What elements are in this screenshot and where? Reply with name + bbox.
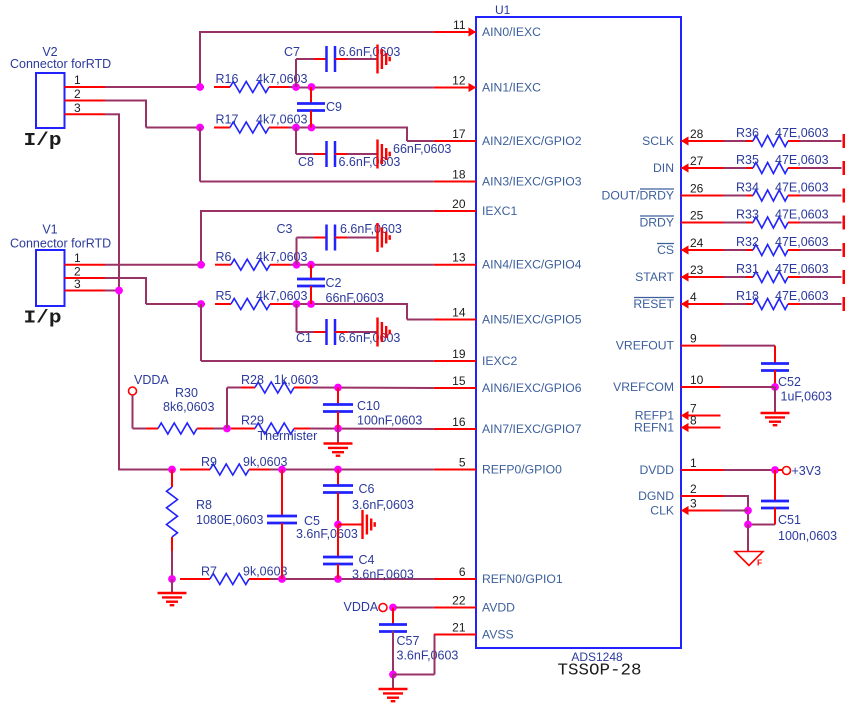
capacitor C10 xyxy=(323,403,353,406)
svg-text:R33: R33 xyxy=(736,208,759,222)
svg-text:C6: C6 xyxy=(359,482,375,496)
svg-text:R8: R8 xyxy=(196,498,212,512)
svg-text:22: 22 xyxy=(452,594,466,608)
ground C7 (rotated) xyxy=(376,45,378,74)
svg-text:R30: R30 xyxy=(175,386,198,400)
svg-text:3.6nF,0603: 3.6nF,0603 xyxy=(352,498,414,512)
ground C6 (rotated) xyxy=(361,510,363,539)
ground under C52 xyxy=(761,412,790,414)
C6 lead to ground xyxy=(338,524,362,526)
off-page terminal R33 xyxy=(843,216,845,230)
junction C5 bottom xyxy=(278,575,286,583)
resistor R17 xyxy=(214,127,230,129)
wire to power ground xyxy=(747,525,749,552)
junction C8 tap xyxy=(292,124,300,132)
wire R6 to AIN4 xyxy=(290,264,434,266)
svg-text:13: 13 xyxy=(452,251,466,265)
junction CLK xyxy=(744,507,752,515)
junction C5 top xyxy=(278,466,286,474)
svg-text:3: 3 xyxy=(690,497,697,511)
svg-text:REFP0/GPIO0: REFP0/GPIO0 xyxy=(482,463,562,477)
svg-text:AVDD: AVDD xyxy=(482,601,515,615)
wire R33 row xyxy=(724,222,747,224)
wire V2 pin2 jog xyxy=(105,100,147,102)
svg-text:18: 18 xyxy=(452,168,466,182)
junction C10 top xyxy=(334,384,342,392)
wire R28 to AIN6 xyxy=(310,387,434,390)
svg-text:3.6nF,0603: 3.6nF,0603 xyxy=(296,527,358,541)
junction C2 bottom tap xyxy=(307,300,315,308)
junction C52 / VREFCOM xyxy=(771,383,779,391)
wire DVDD to node xyxy=(724,469,776,471)
wire R34 to edge xyxy=(800,195,842,197)
svg-text:47E,0603: 47E,0603 xyxy=(775,289,829,303)
pin 18 AIN3/IEXC/GPIO3 xyxy=(434,181,476,183)
junction C9 top tap xyxy=(308,83,316,91)
svg-text:START: START xyxy=(635,270,674,284)
svg-text:6.6nF,0603: 6.6nF,0603 xyxy=(339,45,401,59)
svg-text:66nF,0603: 66nF,0603 xyxy=(393,142,451,156)
pin 2 DGND xyxy=(681,495,724,497)
V1 pin 1 xyxy=(65,264,106,266)
svg-text:6.6nF,0603: 6.6nF,0603 xyxy=(339,155,401,169)
ground under C57 xyxy=(379,688,408,690)
svg-text:1: 1 xyxy=(74,73,81,87)
capacitor C1 leads xyxy=(296,304,298,332)
svg-text:R16: R16 xyxy=(216,72,239,86)
svg-text:C4: C4 xyxy=(359,553,375,567)
svg-text:SCLK: SCLK xyxy=(642,134,674,148)
svg-text:6.6nF,0603: 6.6nF,0603 xyxy=(339,331,401,345)
pin 9 VREFOUT xyxy=(681,345,721,347)
wire R32 to edge xyxy=(800,249,842,251)
svg-text:15: 15 xyxy=(452,374,466,388)
capacitor C57 leads xyxy=(392,608,394,626)
capacitor C8 xyxy=(325,141,328,167)
junction C7 tap xyxy=(292,83,300,91)
wire R29 to AIN7 xyxy=(310,428,434,431)
svg-text:6.6nF,0603: 6.6nF,0603 xyxy=(340,222,402,236)
svg-text:DVDD: DVDD xyxy=(639,463,674,477)
wire IEXC1 row xyxy=(201,210,434,212)
capacitor C10 leads xyxy=(337,388,339,406)
pin 8 REFN1 xyxy=(681,427,721,429)
svg-text:AIN0/IEXC: AIN0/IEXC xyxy=(482,25,541,39)
svg-text:3.6nF,0603: 3.6nF,0603 xyxy=(352,568,414,582)
wire DGND jog down xyxy=(724,495,749,497)
pin 27 DIN xyxy=(681,167,724,169)
pin 20 IEXC1 xyxy=(434,210,476,212)
svg-text:R9: R9 xyxy=(201,455,217,469)
svg-text:R18: R18 xyxy=(736,289,759,303)
svg-text:2: 2 xyxy=(690,482,697,496)
ground C3 (rotated) xyxy=(376,223,378,252)
svg-text:5: 5 xyxy=(459,456,466,470)
svg-text:AIN1/IEXC: AIN1/IEXC xyxy=(482,81,541,95)
off-page terminal R36 xyxy=(843,134,845,148)
svg-text:9: 9 xyxy=(690,332,697,346)
resistor R34 xyxy=(746,195,753,197)
svg-text:1uF,0603: 1uF,0603 xyxy=(781,390,832,404)
V2 pin 1 xyxy=(65,86,106,88)
svg-text:I/p: I/p xyxy=(24,130,62,151)
resistor R31 xyxy=(746,276,753,278)
svg-text:1: 1 xyxy=(690,456,697,470)
svg-text:VDDA: VDDA xyxy=(344,600,379,614)
svg-text:1: 1 xyxy=(74,251,81,265)
pin 1 DVDD xyxy=(681,469,724,471)
capacitor C8 leads xyxy=(295,128,297,155)
pin 28 SCLK xyxy=(681,140,724,142)
svg-text:AIN7/IEXC/GPIO7: AIN7/IEXC/GPIO7 xyxy=(482,422,582,436)
wire R31 row xyxy=(724,276,747,278)
junction C2 top tap xyxy=(307,261,315,269)
svg-text:I/p: I/p xyxy=(24,308,62,329)
pin 19 IEXC2 xyxy=(434,360,476,362)
pin 11 AIN0/IEXC xyxy=(434,31,476,33)
svg-text:REFN0/GPIO1: REFN0/GPIO1 xyxy=(482,572,563,586)
wire AIN0 top rail xyxy=(200,31,434,33)
connector V1 xyxy=(36,250,65,306)
svg-text:C9: C9 xyxy=(326,100,342,114)
junction C3 tap xyxy=(293,261,301,269)
wire to ground under C10 xyxy=(337,429,339,444)
capacitor C9 xyxy=(297,102,325,105)
svg-text:2: 2 xyxy=(74,87,81,101)
pin 17 AIN2/IEXC/GPIO2 xyxy=(434,140,476,142)
svg-text:AIN6/IEXC/GPIO6: AIN6/IEXC/GPIO6 xyxy=(482,381,582,395)
svg-text:100n,0603: 100n,0603 xyxy=(778,529,837,543)
junction C4 bottom xyxy=(334,575,342,583)
svg-text:1k,0603: 1k,0603 xyxy=(274,373,319,387)
capacitor C5 xyxy=(267,515,297,518)
svg-text:6: 6 xyxy=(459,565,466,579)
wire R35 row xyxy=(724,167,747,169)
svg-text:47E,0603: 47E,0603 xyxy=(775,208,829,222)
resistor R18 xyxy=(746,303,753,305)
svg-text:25: 25 xyxy=(690,209,704,223)
svg-text:28: 28 xyxy=(690,127,704,141)
svg-text:3: 3 xyxy=(74,101,81,115)
svg-text:17: 17 xyxy=(452,127,466,141)
wire left vertical bus xyxy=(118,114,120,470)
capacitor C6 leads xyxy=(337,470,339,487)
junction C57 bottom xyxy=(389,671,397,679)
svg-text:C2: C2 xyxy=(326,276,342,290)
junction VDDA / AVDD xyxy=(389,604,397,612)
junction R17 left xyxy=(196,124,204,132)
wire V2 pin3 to left bus xyxy=(105,113,120,115)
wire R7 to REFN0 xyxy=(270,578,434,580)
wire R31 to edge xyxy=(800,276,842,278)
junction R6 left xyxy=(197,261,205,269)
junction C1 tap xyxy=(293,300,301,308)
C8 lead to ground xyxy=(335,153,347,155)
power +3V3 xyxy=(778,469,782,471)
wire R32 row xyxy=(724,249,747,251)
svg-text:REFN1: REFN1 xyxy=(634,421,674,435)
svg-text:C1: C1 xyxy=(296,331,312,345)
pin 13 AIN4/IEXC/GPIO4 xyxy=(434,264,476,266)
svg-text:47E,0603: 47E,0603 xyxy=(775,262,829,276)
pin 7 REFP1 xyxy=(681,415,721,417)
wire V1 pin2 jog xyxy=(105,277,147,279)
capacitor C6 xyxy=(323,484,353,487)
svg-text:DGND: DGND xyxy=(638,489,674,503)
svg-text:R5: R5 xyxy=(216,289,232,303)
resistor R5 xyxy=(215,303,231,305)
pin 22 AVDD xyxy=(434,607,476,609)
resistor R28 xyxy=(241,387,255,389)
junction C9 bottom tap xyxy=(308,124,316,132)
svg-text:12: 12 xyxy=(452,74,466,88)
wire AIN3 row xyxy=(199,128,201,182)
C1 lead to ground xyxy=(335,331,347,333)
svg-text:4k7,0603: 4k7,0603 xyxy=(256,250,307,264)
V2 pin 3 xyxy=(65,113,106,115)
svg-text:IEXC2: IEXC2 xyxy=(482,354,517,368)
svg-text:R28: R28 xyxy=(241,373,264,387)
wire R16 to AIN1 xyxy=(289,86,296,88)
capacitor C3 leads xyxy=(296,238,298,265)
connector V2 xyxy=(36,73,65,128)
svg-text:8: 8 xyxy=(690,414,697,428)
svg-text:C7: C7 xyxy=(284,45,300,59)
wire C57 to AVSS xyxy=(393,674,435,676)
svg-text:AVSS: AVSS xyxy=(482,628,514,642)
svg-text:3.6nF,0603: 3.6nF,0603 xyxy=(397,649,459,663)
V2 pin 2 xyxy=(65,100,106,102)
svg-text:4: 4 xyxy=(690,290,697,304)
svg-text:1080E,0603: 1080E,0603 xyxy=(196,513,263,527)
junction C10 bottom / ground xyxy=(334,425,342,433)
junction R30/R28/R29 xyxy=(223,425,231,433)
svg-text:VREFCOM: VREFCOM xyxy=(613,380,674,394)
svg-text:AIN4/IEXC/GPIO4: AIN4/IEXC/GPIO4 xyxy=(482,258,582,272)
svg-text:C51: C51 xyxy=(778,513,801,527)
junction R8 bottom / ground xyxy=(168,575,176,583)
wire VREFCOM to node xyxy=(721,386,776,388)
ground C1 (rotated) xyxy=(376,318,378,347)
wire node up to R28 xyxy=(226,388,228,429)
svg-text:47E,0603: 47E,0603 xyxy=(775,235,829,249)
svg-text:27: 27 xyxy=(690,154,704,168)
ground under C10 xyxy=(324,442,353,444)
svg-text:CLK: CLK xyxy=(650,504,674,518)
svg-text:CS: CS xyxy=(657,243,674,257)
pin 16 AIN7/IEXC/GPIO7 xyxy=(434,428,476,430)
junction R5 left xyxy=(197,300,205,308)
pin 21 AVSS xyxy=(434,634,476,636)
pin 24 CS xyxy=(681,249,724,251)
svg-text:U1: U1 xyxy=(495,3,511,17)
ground under R8 xyxy=(158,592,187,594)
svg-text:IEXC1: IEXC1 xyxy=(482,204,517,218)
resistor R36 xyxy=(746,140,753,142)
svg-text:8k6,0603: 8k6,0603 xyxy=(163,400,214,414)
wire V1 pin1 to node xyxy=(105,264,205,266)
op-amp U1 ADS1248 IC body xyxy=(476,17,681,648)
svg-text:R35: R35 xyxy=(736,153,759,167)
off-page terminal R31 xyxy=(843,270,845,284)
svg-text:R36: R36 xyxy=(736,126,759,140)
svg-text:66nF,0603: 66nF,0603 xyxy=(326,291,384,305)
wire to ground under R8 xyxy=(171,579,173,593)
wire VREFOUT to C52 xyxy=(721,345,776,347)
capacitor C7 leads xyxy=(295,59,297,87)
capacitor C2 leads xyxy=(310,265,312,280)
V1 pin 2 xyxy=(65,277,106,279)
svg-text:47E,0603: 47E,0603 xyxy=(775,181,829,195)
capacitor C7 xyxy=(325,46,328,72)
svg-text:C8: C8 xyxy=(298,155,314,169)
wire R33 to edge xyxy=(800,222,842,224)
pin 26 DOUT/DRDY xyxy=(681,195,724,197)
svg-text:4k7,0603: 4k7,0603 xyxy=(256,72,307,86)
resistor R16 xyxy=(214,86,230,88)
svg-text:F: F xyxy=(757,558,762,568)
capacitor C1 xyxy=(325,319,328,345)
svg-text:4k7,0603: 4k7,0603 xyxy=(256,113,307,127)
wire to ground under C57 xyxy=(392,675,394,689)
svg-text:16: 16 xyxy=(452,415,466,429)
svg-text:R31: R31 xyxy=(736,262,759,276)
capacitor C4 leads xyxy=(337,525,339,558)
capacitor C57 xyxy=(379,623,407,626)
capacitor C9 leads xyxy=(310,87,312,104)
wire R17 to AIN2 jog xyxy=(289,127,407,129)
resistor R30 xyxy=(146,428,158,430)
resistor R7 xyxy=(180,578,210,580)
pin 5 REFP0/GPIO0 xyxy=(434,469,476,471)
resistor R33 xyxy=(746,222,753,224)
svg-text:24: 24 xyxy=(690,236,704,250)
svg-text:14: 14 xyxy=(452,306,466,320)
pin 12 AIN1/IEXC xyxy=(434,87,476,89)
wire R18 to edge xyxy=(800,303,842,305)
wire R30 to node xyxy=(213,428,227,430)
pin 3 CLK xyxy=(681,510,721,512)
wire R36 row xyxy=(724,140,747,142)
capacitor C2 xyxy=(297,278,325,281)
svg-text:C10: C10 xyxy=(357,399,380,413)
svg-text:RESET: RESET xyxy=(633,297,674,311)
pin 23 START xyxy=(681,276,724,278)
wire CLK to node xyxy=(721,510,749,512)
resistor R6 xyxy=(215,264,231,266)
capacitor C51 xyxy=(761,500,789,503)
wire R35 to edge xyxy=(800,167,842,169)
off-page terminal R32 xyxy=(843,243,845,257)
resistor R9 xyxy=(180,469,210,471)
svg-text:AIN3/IEXC/GPIO3: AIN3/IEXC/GPIO3 xyxy=(482,175,582,189)
capacitor C4 xyxy=(323,556,353,559)
C3 lead to ground xyxy=(335,237,347,239)
resistor R32 xyxy=(746,249,753,251)
svg-text:DRDY: DRDY xyxy=(639,216,674,230)
svg-text:47E,0603: 47E,0603 xyxy=(775,126,829,140)
pin 10 VREFCOM xyxy=(681,386,721,388)
resistor R8 (vertical) xyxy=(171,470,173,488)
svg-text:+3V3: +3V3 xyxy=(792,464,822,478)
wire IEXC2 row xyxy=(200,304,202,361)
svg-text:TSSOP-28: TSSOP-28 xyxy=(558,661,642,680)
ground C8 (rotated) xyxy=(376,140,378,169)
wire R34 row xyxy=(724,195,747,197)
svg-text:100nF,0603: 100nF,0603 xyxy=(357,414,422,428)
pin 15 AIN6/IEXC/GPIO6 xyxy=(434,387,476,389)
svg-text:V1: V1 xyxy=(42,223,57,237)
capacitor C51 leads xyxy=(774,470,776,502)
svg-text:C52: C52 xyxy=(778,375,801,389)
junction C6 top xyxy=(334,466,342,474)
C52 bottom lead xyxy=(774,370,776,387)
off-page terminal R35 xyxy=(843,161,845,175)
junction C51 return xyxy=(744,521,752,529)
wire R5 to AIN5 jog xyxy=(290,303,407,305)
svg-text:C3: C3 xyxy=(277,222,293,236)
junction V1 pin3 on bus xyxy=(115,287,123,295)
svg-text:11: 11 xyxy=(453,18,466,32)
pin 6 REFN0/GPIO1 xyxy=(434,578,476,580)
svg-text:R6: R6 xyxy=(216,250,232,264)
svg-text:Thermister: Thermister xyxy=(258,429,318,443)
wire V1 pin3 to bus xyxy=(105,290,119,292)
resistor R35 xyxy=(746,167,753,169)
svg-text:4k7,0603: 4k7,0603 xyxy=(256,289,307,303)
svg-text:R17: R17 xyxy=(216,113,239,127)
junction R16 left xyxy=(196,83,204,91)
svg-text:21: 21 xyxy=(452,621,466,635)
off-page terminal R18 xyxy=(843,297,845,311)
wire VDDA to R30 xyxy=(132,395,134,429)
svg-text:VDDA: VDDA xyxy=(134,373,169,387)
power ground (triangle) F xyxy=(735,552,763,566)
svg-text:23: 23 xyxy=(690,263,704,277)
wire bus corner to R9 row xyxy=(119,469,172,471)
svg-text:C5: C5 xyxy=(304,514,320,528)
svg-text:Connector forRTD: Connector forRTD xyxy=(10,57,111,71)
wire V2 pin1 to node xyxy=(105,86,204,88)
svg-text:C57: C57 xyxy=(397,634,420,648)
svg-text:R29: R29 xyxy=(241,414,264,428)
svg-text:R32: R32 xyxy=(736,235,759,249)
capacitor C3 xyxy=(325,225,328,251)
wire R9 to REFP0 xyxy=(270,469,434,471)
C51 return wire xyxy=(748,524,775,526)
capacitor C52 xyxy=(761,362,789,365)
junction R8 top xyxy=(168,466,176,474)
svg-text:DIN: DIN xyxy=(653,161,674,175)
off-page terminal R34 xyxy=(843,189,845,203)
svg-text:20: 20 xyxy=(452,197,466,211)
wire VDDA to AVDD xyxy=(396,607,434,609)
svg-text:R7: R7 xyxy=(201,565,217,579)
junction DVDD / +3V3 xyxy=(771,466,779,474)
svg-text:19: 19 xyxy=(452,347,466,361)
pin 4 RESET xyxy=(681,303,724,305)
svg-text:R34: R34 xyxy=(736,181,759,195)
C7 lead to ground xyxy=(335,58,347,60)
capacitor C5 leads xyxy=(281,470,283,517)
svg-text:AIN5/IEXC/GPIO5: AIN5/IEXC/GPIO5 xyxy=(482,313,582,327)
resistor R29 (thermistor) xyxy=(231,428,255,430)
junction C6/C4/ground xyxy=(334,521,342,529)
V1 pin 3 xyxy=(65,290,106,292)
svg-text:DOUT/DRDY: DOUT/DRDY xyxy=(602,189,674,203)
pin 25 DRDY xyxy=(681,222,724,224)
svg-text:Connector forRTD: Connector forRTD xyxy=(10,237,111,251)
